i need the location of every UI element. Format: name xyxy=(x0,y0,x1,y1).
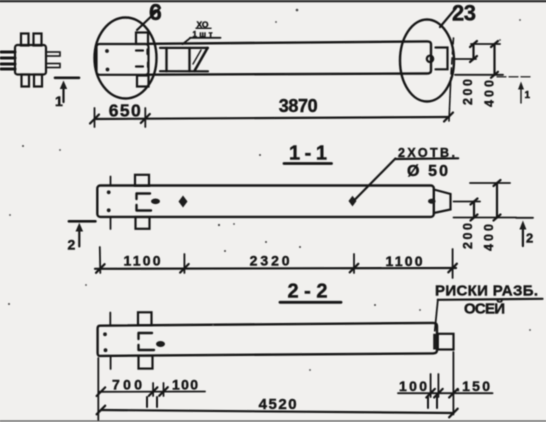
dim line 1-1 xyxy=(95,267,456,270)
top stub 1-1 xyxy=(135,175,149,186)
ext vertical hole1 1-1 xyxy=(183,254,185,273)
section mark 1 left: bar xyxy=(55,77,79,80)
section mark 1 left: arrow stem xyxy=(62,86,64,102)
tenon riska mark 2-2 (dark) xyxy=(433,334,438,350)
wedge diagonal xyxy=(195,48,208,71)
svg-text:23: 23 xyxy=(452,1,476,26)
block dot lower xyxy=(106,68,110,72)
tenon bracket (top view) xyxy=(436,48,448,70)
block dot upper xyxy=(105,49,109,53)
dim 200 tick top xyxy=(470,41,477,47)
dim 400 tick top xyxy=(491,41,498,47)
dim 200 tick top (1-1) xyxy=(471,199,478,205)
svg-text:400: 400 xyxy=(482,224,496,251)
axis tick below beam 1-1 xyxy=(110,218,112,229)
beam dot lower 1-1 xyxy=(107,208,111,212)
section mark 2 left: bar xyxy=(69,220,96,223)
section mark 2 right: arrowhead xyxy=(519,221,526,230)
column end block 650 xyxy=(97,44,149,75)
cross part bottom stub 1 xyxy=(22,75,30,87)
riski leader xyxy=(435,300,438,331)
console plate: inner top line xyxy=(160,47,208,49)
beam outline 1-1 xyxy=(97,186,434,217)
tick 1-1 d xyxy=(448,264,457,273)
svg-text:2-2: 2-2 xyxy=(288,281,328,303)
dashed bracket 2-2: left dash upper xyxy=(137,333,139,339)
bottom stub 2-2 xyxy=(139,356,153,369)
ext vertical right 1-1 xyxy=(452,249,454,278)
dashed bracket 1-1: left dash upper xyxy=(135,194,137,200)
tick 4520 left xyxy=(97,406,106,415)
callout XO underline xyxy=(190,37,221,39)
svg-text:2: 2 xyxy=(68,237,76,253)
svg-text:1100: 1100 xyxy=(124,253,161,269)
cross part top stub 2 xyxy=(34,34,42,46)
tick 1-1 c xyxy=(350,264,359,273)
tenon 2-2 xyxy=(438,334,454,350)
beam outline top view xyxy=(149,41,432,74)
block bottom clamp xyxy=(137,76,149,87)
svg-text:1-1: 1-1 xyxy=(289,143,327,165)
dim 400 vertical (top view) xyxy=(493,44,495,75)
tenon 1-1 xyxy=(434,190,451,214)
extension line (right end, dashed above) xyxy=(451,38,454,78)
riska tick pair left on 4520 xyxy=(146,397,148,407)
callout XO small underline xyxy=(196,27,211,29)
svg-text:2ХОТВ.: 2ХОТВ. xyxy=(398,146,455,160)
cross part right bar 2 xyxy=(46,64,60,68)
bottom extension for width dims xyxy=(455,74,503,76)
tick 1-1 a xyxy=(96,264,105,273)
ext vertical 100 2-2 xyxy=(163,383,165,396)
dim 200 tick bottom xyxy=(470,56,477,62)
dim 400 vertical (1-1) xyxy=(496,183,498,218)
tenon circle (top view) xyxy=(427,56,433,62)
weld blob 1-1 xyxy=(151,199,160,205)
svg-text:1100: 1100 xyxy=(386,253,423,269)
ext vertical r2 2-2 xyxy=(437,374,439,397)
extension line (right end, solid below) xyxy=(449,78,451,121)
cross part left bar 4 xyxy=(1,68,15,71)
dashed bracket 2-2: left dash lower xyxy=(137,345,139,350)
section mark 1 right: arrowhead xyxy=(518,82,524,90)
tenon blob 1-1 xyxy=(428,199,436,204)
section mark 1 right: arrow stem xyxy=(520,87,522,103)
section mark 2 right: bar xyxy=(516,217,533,219)
top stub 2-2 xyxy=(138,312,152,325)
ext vertical left 1-1 xyxy=(99,247,102,273)
svg-text:4520: 4520 xyxy=(259,396,297,413)
weld blob 2-2 xyxy=(156,341,165,347)
dim line 4520 xyxy=(101,410,454,413)
ext vertical 700 2-2 xyxy=(152,383,154,396)
bottom scan edge line xyxy=(0,420,546,422)
riska tick pair right on 4520 xyxy=(427,397,429,408)
wedge hatch xyxy=(193,50,201,64)
dim line left 2-2 xyxy=(99,391,205,393)
beam dot upper 1-1 xyxy=(107,190,111,194)
svg-text:2: 2 xyxy=(526,231,533,246)
console plate: inner bottom line xyxy=(160,70,208,72)
tick at 3870 right xyxy=(444,113,453,122)
title 1-1 underline xyxy=(284,162,332,165)
callout 2 holes underline xyxy=(395,157,458,160)
block inner dash b xyxy=(146,50,148,55)
svg-text:РИСКИ РАЗБ.: РИСКИ РАЗБ. xyxy=(435,283,538,300)
top scan edge line xyxy=(0,0,546,2)
tick 2-2 right b xyxy=(434,389,443,398)
svg-text:650: 650 xyxy=(109,101,141,121)
svg-text:1: 1 xyxy=(525,90,531,101)
ext vertical r1 2-2 xyxy=(430,374,432,397)
cross part bottom stub 2 xyxy=(34,75,42,87)
beam outline 2-2 xyxy=(98,323,437,356)
mid extension line right of tenon xyxy=(455,58,476,60)
svg-text:1шт: 1шт xyxy=(193,30,213,39)
section mark 1 left: arrowhead xyxy=(60,81,67,90)
callout XO leader xyxy=(183,38,191,44)
top ext for 400 (1-1) xyxy=(470,182,510,184)
beam dot lower 2-2 xyxy=(104,348,108,352)
tick 2-2 left c xyxy=(159,387,168,396)
axis tick above beam 1-1 xyxy=(110,177,112,185)
mid extension 650/3870 xyxy=(144,108,146,127)
dim 400 tick bottom xyxy=(491,72,498,78)
section mark 2 left: arrowhead xyxy=(76,223,84,232)
svg-text:3870: 3870 xyxy=(279,96,318,116)
console plate: vertical 1 xyxy=(165,48,167,71)
tick 2-2 right a xyxy=(426,389,435,398)
dim 200 tick bottom (1-1) xyxy=(471,215,478,221)
tick 2-2 right c xyxy=(449,389,458,398)
cross part left bar 2 xyxy=(1,57,15,60)
mid ext for 200 (1-1) xyxy=(454,201,481,203)
svg-text:ХО: ХО xyxy=(197,19,209,29)
callout 2 holes leader xyxy=(355,159,395,200)
dim line 650+3870 xyxy=(95,117,449,119)
ext vertical r3 long 2-2 xyxy=(452,352,454,415)
label 6 leader xyxy=(137,8,160,30)
svg-text:100: 100 xyxy=(399,378,427,394)
block inner dash d xyxy=(147,63,149,68)
cross part right bar 1 xyxy=(46,52,60,56)
tick at 650/3870 xyxy=(141,114,150,123)
block top clamp xyxy=(136,33,148,45)
balloon ellipse 6 xyxy=(95,18,157,99)
block inner dash c xyxy=(136,65,143,67)
svg-text:6: 6 xyxy=(149,0,162,25)
dashed bracket 2-2: bottom dash xyxy=(139,349,154,351)
svg-text:700: 700 xyxy=(112,377,142,393)
svg-text:ОСЕЙ: ОСЕЙ xyxy=(464,300,505,318)
bottom stub 1-1 xyxy=(136,217,150,229)
dim line right 2-2 xyxy=(398,392,493,394)
label 23 leader xyxy=(440,8,456,27)
tick 2-2 left b xyxy=(149,387,158,396)
svg-text:1: 1 xyxy=(55,93,63,109)
console plate: vertical 2 xyxy=(188,48,190,71)
ext vertical hole2 1-1 xyxy=(353,254,355,273)
section mark 2 right: arrow stem xyxy=(522,227,524,246)
ext vertical left long 2-2 xyxy=(97,358,99,420)
cross part left bar 3 xyxy=(1,63,15,66)
dim 400 tick bottom (1-1) xyxy=(494,215,501,221)
dashed bracket 1-1: top dash xyxy=(137,192,150,194)
svg-text:200: 200 xyxy=(461,223,475,249)
hole diamond 2 xyxy=(349,196,357,207)
tick at 650 left xyxy=(90,115,99,124)
tick 2-2 left a xyxy=(97,387,106,396)
axis tick below beam 2-2 xyxy=(110,356,112,369)
cross part top stub 1 xyxy=(21,34,29,46)
dashed bracket 1-1: bottom dash xyxy=(137,209,151,211)
block inner dash a xyxy=(136,49,143,51)
dim 200 vertical (top view) xyxy=(472,44,474,59)
tick 1-1 b xyxy=(180,264,189,273)
axis tick above beam 2-2 xyxy=(109,313,111,325)
beam dot upper 2-2 xyxy=(103,332,107,336)
balloon ellipse 23 xyxy=(400,20,454,102)
svg-text:200: 200 xyxy=(461,79,475,105)
bottom ext (1-1) xyxy=(454,217,517,219)
cross-section part body (top-left) xyxy=(15,45,46,75)
left extension of 650 xyxy=(94,108,96,127)
title 2-2 underline xyxy=(280,301,341,304)
svg-text:Ø 50: Ø 50 xyxy=(407,163,448,180)
section mark 2 left: arrow stem xyxy=(78,229,80,246)
dim 400 tick top (1-1) xyxy=(494,180,501,186)
riski underline xyxy=(438,299,543,300)
tick 4520 right xyxy=(449,409,458,418)
dashed bracket 1-1: left dash lower xyxy=(135,205,137,211)
dim 200 vertical (1-1) xyxy=(473,202,475,218)
svg-text:400: 400 xyxy=(483,80,497,107)
section mark 1 right: bar xyxy=(497,76,530,78)
svg-text:100: 100 xyxy=(172,377,198,393)
cross part left bar 1 xyxy=(1,51,15,54)
hole diamond 1 xyxy=(179,196,188,208)
dashed bracket 2-2: top dash xyxy=(139,332,152,334)
top extension for width dims xyxy=(471,43,500,45)
